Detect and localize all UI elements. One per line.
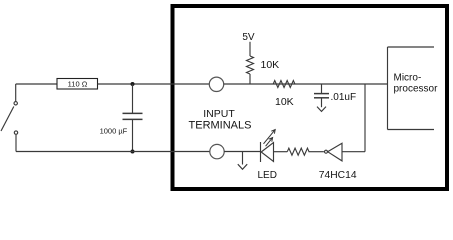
node junction bottom — [131, 150, 135, 154]
svg-text:LED: LED — [258, 170, 277, 181]
wire pullup to rail — [249, 74, 251, 84]
svg-text:processor: processor — [394, 84, 439, 95]
wire top rail left — [16, 83, 57, 85]
wire bottom rail left — [16, 151, 210, 153]
resistor LED series zigzag — [287, 148, 309, 155]
LED D1 — [261, 142, 288, 162]
svg-text:INPUT: INPUT — [203, 108, 235, 120]
wire 5V stub — [249, 42, 251, 56]
svg-text:5V: 5V — [242, 32, 255, 43]
wire resistor to inverter bubble — [309, 151, 324, 153]
svg-text:1000 µF: 1000 µF — [100, 127, 128, 136]
capacitor C .01uF — [314, 84, 329, 107]
microprocessor box — [388, 47, 435, 130]
svg-text:74HC14: 74HC14 — [319, 170, 357, 181]
resistor 10K pullup vertical — [247, 56, 254, 74]
svg-text:10K: 10K — [275, 96, 294, 108]
ground arrow for .01uF — [317, 107, 326, 112]
terminal top circle — [209, 77, 223, 91]
svg-text:Micro-: Micro- — [394, 72, 422, 83]
wire top rail middle — [98, 83, 210, 85]
inverter U1 74HC14 — [325, 143, 343, 161]
svg-text:.01uF: .01uF — [331, 92, 357, 103]
capacitor C 1000uF — [123, 84, 143, 152]
terminal bottom circle — [210, 144, 224, 158]
controller box U-box — [173, 6, 448, 189]
svg-text:TERMINALS: TERMINALS — [189, 119, 252, 131]
wire bottom rail right of terminal — [224, 151, 260, 153]
svg-text:10K: 10K — [261, 59, 280, 71]
resistor 10K series horizontal — [273, 81, 295, 88]
wire inverter input from top rail — [342, 84, 365, 152]
svg-text:110 Ω: 110 Ω — [68, 80, 88, 89]
LED emission arrows — [264, 130, 276, 147]
node junction top — [131, 82, 135, 86]
resistor R 110 ohm box — [57, 79, 98, 90]
switch S1 — [1, 84, 18, 152]
wire top rail right — [224, 83, 388, 85]
ground arrow on bottom rail — [238, 152, 247, 170]
